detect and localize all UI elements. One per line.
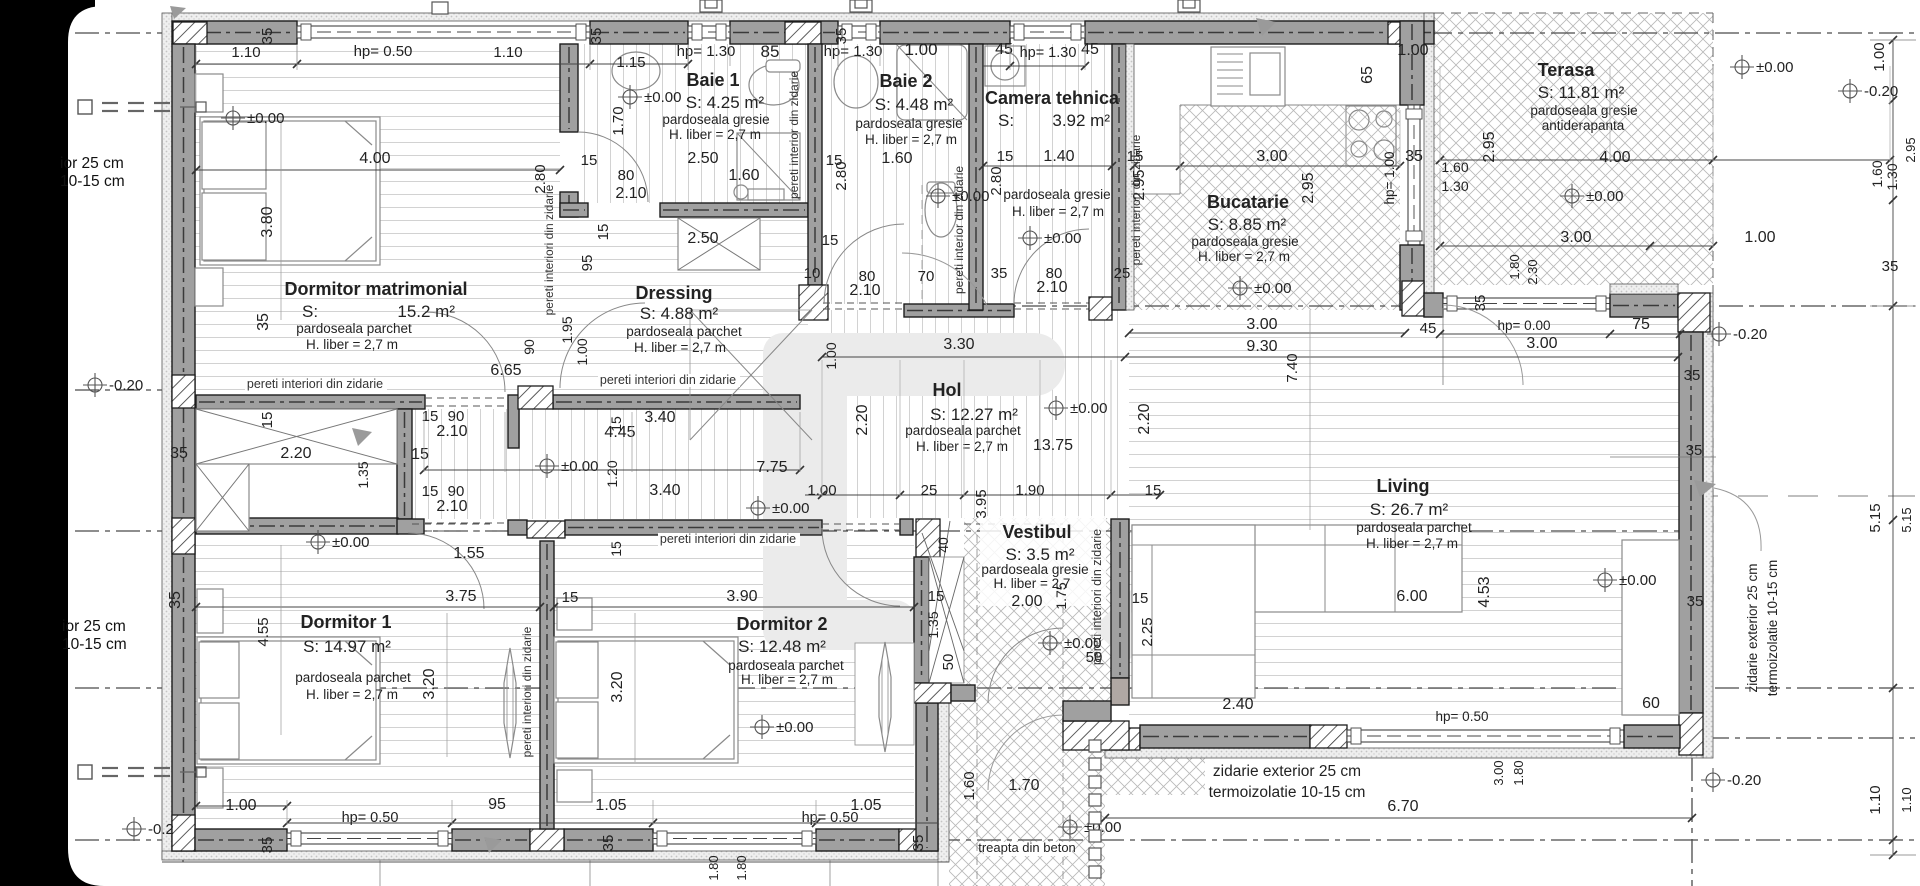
svg-text:35: 35 — [588, 28, 605, 45]
svg-text:1.00: 1.00 — [1744, 229, 1775, 246]
svg-text:pardoseala parchet: pardoseala parchet — [1356, 520, 1472, 535]
svg-text:15: 15 — [259, 412, 276, 429]
svg-text:pereti interiori din zidarie: pereti interiori din zidarie — [1090, 529, 1104, 665]
svg-text:15.2 m²: 15.2 m² — [397, 302, 455, 321]
svg-text:3.40: 3.40 — [649, 482, 680, 499]
svg-text:2.50: 2.50 — [687, 230, 718, 247]
svg-text:15: 15 — [826, 152, 843, 169]
svg-text:±0.00: ±0.00 — [1756, 59, 1793, 76]
svg-text:1.00: 1.00 — [823, 342, 839, 369]
svg-text:3.00: 3.00 — [1491, 760, 1506, 785]
svg-text:2.20: 2.20 — [280, 445, 311, 462]
svg-text:2.40: 2.40 — [1222, 696, 1253, 713]
svg-text:H. liber = 2,7 m: H. liber = 2,7 m — [916, 439, 1008, 454]
svg-text:2.95: 2.95 — [1300, 172, 1317, 203]
svg-text:±0.00: ±0.00 — [1254, 280, 1291, 297]
svg-text:Dressing: Dressing — [635, 283, 712, 303]
svg-text:Hol: Hol — [933, 380, 962, 400]
svg-text:-0.20: -0.20 — [1727, 772, 1761, 789]
svg-text:35: 35 — [170, 445, 188, 462]
svg-text:pardoseala gresie: pardoseala gresie — [855, 116, 962, 131]
svg-text:15: 15 — [581, 152, 598, 169]
svg-text:H. liber = 2,7 m: H. liber = 2,7 m — [669, 127, 761, 142]
svg-text:4.00: 4.00 — [359, 150, 390, 167]
svg-text:25: 25 — [1114, 265, 1131, 282]
svg-text:hp= 1.00: hp= 1.00 — [1382, 152, 1397, 205]
svg-text:pardoseala gresie: pardoseala gresie — [1191, 234, 1298, 249]
svg-text:2.95: 2.95 — [1481, 131, 1498, 162]
svg-text:1.60: 1.60 — [1441, 159, 1468, 175]
svg-text:35: 35 — [833, 28, 850, 45]
svg-text:1.60: 1.60 — [881, 150, 912, 167]
svg-text:H. liber = 2,7 m: H. liber = 2,7 m — [1012, 204, 1104, 219]
svg-text:3.75: 3.75 — [445, 588, 476, 605]
svg-text:2.20: 2.20 — [854, 404, 871, 435]
svg-text:hp= 0.00: hp= 0.00 — [1498, 318, 1551, 333]
svg-text:hp= 0.50: hp= 0.50 — [802, 810, 859, 826]
svg-text:85: 85 — [761, 42, 780, 61]
svg-text:zidarie exterior 25 cm: zidarie exterior 25 cm — [1745, 563, 1760, 692]
svg-text:H. liber = 2,7 m: H. liber = 2,7 m — [634, 340, 726, 355]
svg-text:15: 15 — [822, 232, 839, 249]
svg-text:-0.20: -0.20 — [109, 377, 143, 394]
svg-text:1.10: 1.10 — [493, 44, 522, 61]
svg-text:termoizolatie 10-15 cm: termoizolatie 10-15 cm — [1765, 560, 1780, 697]
svg-text:13.75: 13.75 — [1033, 437, 1073, 454]
svg-text:2.10: 2.10 — [615, 185, 646, 202]
svg-text:6.65: 6.65 — [490, 362, 521, 379]
svg-text:5.15: 5.15 — [1867, 503, 1884, 532]
svg-text:1.95: 1.95 — [559, 316, 575, 343]
svg-text:S: 12.27 m²: S: 12.27 m² — [930, 405, 1018, 424]
svg-text:pereti interior din zidarie: pereti interior din zidarie — [787, 71, 801, 199]
svg-text:90: 90 — [521, 339, 537, 355]
svg-text:pereti interiori din zidarie: pereti interiori din zidarie — [520, 626, 534, 757]
svg-text:hp= 1.30: hp= 1.30 — [824, 43, 883, 60]
svg-text:hp= 0.50: hp= 0.50 — [342, 810, 399, 826]
svg-text:treapta din beton: treapta din beton — [978, 840, 1076, 855]
svg-text:2.95: 2.95 — [1903, 137, 1918, 162]
svg-text:pereti interiori din zidarie: pereti interiori din zidarie — [1129, 134, 1143, 265]
svg-text:S: 4.25 m²: S: 4.25 m² — [686, 93, 765, 112]
svg-text:65: 65 — [1359, 66, 1376, 84]
svg-text:35: 35 — [1687, 593, 1704, 610]
svg-text:1.80: 1.80 — [734, 855, 749, 880]
svg-text:45: 45 — [1081, 41, 1099, 58]
svg-text:35: 35 — [255, 313, 272, 331]
svg-text:35: 35 — [259, 837, 276, 854]
svg-text:S: 11.81 m²: S: 11.81 m² — [1538, 83, 1625, 102]
svg-text:35: 35 — [1882, 258, 1899, 275]
svg-text:±0.00: ±0.00 — [1044, 230, 1081, 247]
svg-text:±0.00: ±0.00 — [772, 500, 809, 517]
svg-text:80: 80 — [618, 167, 635, 184]
svg-text:7.40: 7.40 — [1284, 353, 1301, 382]
svg-text:2.25: 2.25 — [1139, 617, 1156, 646]
svg-text:Dormitor matrimonial: Dormitor matrimonial — [284, 279, 467, 299]
svg-text:1.80: 1.80 — [1511, 760, 1526, 785]
svg-text:1.75: 1.75 — [1053, 582, 1069, 609]
svg-text:6.70: 6.70 — [1387, 798, 1418, 815]
svg-text:±0.00: ±0.00 — [644, 89, 681, 106]
svg-text:1.00: 1.00 — [225, 797, 256, 814]
svg-text:±0.00: ±0.00 — [776, 719, 813, 736]
svg-text:3.00: 3.00 — [1256, 148, 1287, 165]
svg-text:3.95: 3.95 — [973, 489, 990, 518]
svg-text:15: 15 — [928, 588, 945, 605]
svg-text:1.70: 1.70 — [1008, 777, 1039, 794]
svg-text:Dormitor 1: Dormitor 1 — [300, 612, 391, 632]
svg-text:pardoseala parchet: pardoseala parchet — [626, 324, 742, 339]
svg-text:ior 25 cm: ior 25 cm — [62, 618, 126, 635]
svg-text:1.60: 1.60 — [1869, 160, 1885, 187]
svg-text:9.30: 9.30 — [1246, 338, 1277, 355]
svg-text:S:: S: — [998, 111, 1014, 130]
svg-text:2.10: 2.10 — [436, 498, 467, 515]
svg-text:2.10: 2.10 — [1036, 279, 1067, 296]
svg-text:15: 15 — [411, 446, 429, 463]
svg-text:S: 12.48 m²: S: 12.48 m² — [738, 637, 826, 656]
svg-text:1.30: 1.30 — [1441, 178, 1468, 194]
svg-text:H. liber = 2,7 m: H. liber = 2,7 m — [741, 672, 833, 687]
svg-text:1.70: 1.70 — [610, 106, 627, 135]
svg-text:±0.00: ±0.00 — [561, 458, 598, 475]
svg-text:pardoseala gresie: pardoseala gresie — [1003, 187, 1110, 202]
svg-text:pardoseala parchet: pardoseala parchet — [296, 321, 412, 336]
svg-text:±0.00: ±0.00 — [1070, 400, 1107, 417]
svg-text:1.80: 1.80 — [1507, 254, 1522, 279]
svg-text:2.80: 2.80 — [988, 166, 1005, 195]
svg-text:75: 75 — [1632, 316, 1650, 333]
svg-text:15: 15 — [997, 148, 1014, 165]
svg-text:3.80: 3.80 — [259, 206, 276, 237]
svg-text:2.20: 2.20 — [1136, 403, 1153, 434]
svg-text:15: 15 — [562, 589, 579, 606]
svg-text:95: 95 — [579, 255, 596, 272]
svg-text:35: 35 — [1684, 367, 1701, 384]
svg-text:35: 35 — [1405, 148, 1423, 165]
svg-text:Camera tehnica: Camera tehnica — [985, 88, 1120, 108]
svg-text:Baie 2: Baie 2 — [879, 71, 932, 91]
svg-text:70: 70 — [918, 268, 935, 285]
svg-text:1.00: 1.00 — [904, 40, 937, 59]
svg-text:-0.2: -0.2 — [148, 821, 174, 838]
svg-text:4.55: 4.55 — [255, 617, 272, 646]
svg-text:±0.00: ±0.00 — [332, 534, 369, 551]
svg-text:1.05: 1.05 — [595, 797, 626, 814]
svg-text:pardoseala parchet: pardoseala parchet — [295, 670, 411, 685]
svg-text:1.00: 1.00 — [574, 338, 590, 365]
svg-text:3.40: 3.40 — [644, 409, 675, 426]
svg-text:1.35: 1.35 — [355, 461, 371, 488]
svg-text:Bucatarie: Bucatarie — [1207, 192, 1289, 212]
svg-text:35: 35 — [600, 835, 617, 852]
svg-text:2.00: 2.00 — [1011, 593, 1042, 610]
svg-text:15: 15 — [608, 541, 624, 557]
svg-text:10: 10 — [804, 265, 821, 282]
svg-text:25: 25 — [921, 482, 938, 499]
svg-text:S:: S: — [302, 302, 318, 321]
svg-text:50: 50 — [940, 654, 957, 671]
svg-text:pardoseala gresie: pardoseala gresie — [1530, 103, 1637, 118]
svg-text:2.30: 2.30 — [1525, 259, 1540, 284]
svg-text:H. liber = 2,7 m: H. liber = 2,7 m — [306, 687, 398, 702]
svg-text:3.00: 3.00 — [1526, 335, 1557, 352]
svg-text:hp= 1.30: hp= 1.30 — [1020, 45, 1077, 61]
svg-text:3.92 m²: 3.92 m² — [1052, 111, 1110, 130]
svg-text:termoizolatie 10-15 cm: termoizolatie 10-15 cm — [1209, 784, 1366, 801]
svg-text:3.00: 3.00 — [1246, 316, 1277, 333]
svg-text:4.00: 4.00 — [1599, 149, 1630, 166]
svg-text:6.00: 6.00 — [1396, 588, 1427, 605]
svg-text:35: 35 — [1686, 442, 1703, 459]
svg-text:pereti interiori din zidarie: pereti interiori din zidarie — [660, 532, 796, 546]
svg-text:hp= 1.30: hp= 1.30 — [677, 43, 736, 60]
svg-text:pereti interiori din zidarie: pereti interiori din zidarie — [247, 377, 383, 391]
svg-text:S: 14.97 m²: S: 14.97 m² — [303, 637, 391, 656]
svg-text:-0.20: -0.20 — [1864, 83, 1898, 100]
svg-text:antiderapanta: antiderapanta — [1542, 118, 1625, 133]
svg-text:1.00: 1.00 — [1397, 42, 1428, 59]
svg-text:10-15 cm: 10-15 cm — [62, 636, 127, 653]
svg-text:7.75: 7.75 — [756, 459, 787, 476]
svg-text:S: 8.85 m²: S: 8.85 m² — [1208, 215, 1287, 234]
svg-text:35: 35 — [259, 28, 276, 45]
svg-text:2.10: 2.10 — [436, 423, 467, 440]
svg-text:Dormitor 2: Dormitor 2 — [736, 614, 827, 634]
svg-text:35: 35 — [167, 591, 184, 609]
svg-text:1.30: 1.30 — [1884, 163, 1900, 190]
svg-text:2.10: 2.10 — [849, 282, 880, 299]
svg-text:pardoseala gresie: pardoseala gresie — [662, 112, 769, 127]
svg-text:ior 25 cm: ior 25 cm — [60, 155, 124, 172]
svg-text:35: 35 — [1472, 295, 1489, 312]
svg-text:3.90: 3.90 — [726, 588, 757, 605]
svg-text:3.00: 3.00 — [1560, 229, 1591, 246]
svg-text:1.55: 1.55 — [453, 545, 484, 562]
svg-text:1.10: 1.10 — [1899, 787, 1914, 812]
svg-text:pardoseala gresie: pardoseala gresie — [981, 562, 1088, 577]
svg-text:pardoseala parchet: pardoseala parchet — [728, 658, 844, 673]
svg-text:S: 4.88 m²: S: 4.88 m² — [640, 304, 719, 323]
svg-text:40: 40 — [935, 537, 951, 553]
svg-text:35: 35 — [991, 265, 1008, 282]
svg-text:1.60: 1.60 — [728, 167, 759, 184]
svg-text:pereti interiori din zidarie: pereti interiori din zidarie — [542, 184, 556, 315]
svg-text:H. liber = 2,7 m: H. liber = 2,7 m — [1366, 536, 1458, 551]
svg-text:4.53: 4.53 — [1476, 576, 1493, 607]
svg-text:hp= 0.50: hp= 0.50 — [1436, 709, 1489, 724]
svg-text:35: 35 — [910, 835, 927, 852]
svg-text:15: 15 — [1132, 590, 1149, 607]
svg-text:Living: Living — [1377, 476, 1430, 496]
svg-text:5.15: 5.15 — [1899, 507, 1914, 532]
svg-text:Vestibul: Vestibul — [1002, 522, 1071, 542]
svg-text:±0.00: ±0.00 — [247, 110, 284, 127]
svg-text:60: 60 — [1642, 695, 1660, 712]
svg-text:1.35: 1.35 — [925, 611, 941, 638]
svg-text:S: 26.7 m²: S: 26.7 m² — [1370, 500, 1449, 519]
svg-text:15: 15 — [1145, 482, 1162, 499]
svg-text:3.30: 3.30 — [943, 336, 974, 353]
svg-text:pereti interior din zidarie: pereti interior din zidarie — [952, 166, 966, 294]
svg-text:15: 15 — [595, 224, 612, 241]
svg-text:1.00: 1.00 — [1871, 42, 1888, 71]
svg-text:1.20: 1.20 — [604, 460, 620, 487]
svg-text:45: 45 — [1420, 320, 1437, 337]
svg-text:1.15: 1.15 — [616, 54, 645, 71]
svg-text:1.80: 1.80 — [706, 855, 721, 880]
svg-text:2.50: 2.50 — [687, 150, 718, 167]
svg-text:4.45: 4.45 — [604, 424, 635, 441]
svg-text:Baie 1: Baie 1 — [686, 70, 739, 90]
svg-text:1.10: 1.10 — [1867, 785, 1884, 814]
svg-text:H. liber = 2,7 m: H. liber = 2,7 m — [865, 132, 957, 147]
svg-text:±0.00: ±0.00 — [1586, 188, 1623, 205]
svg-text:pereti interiori din zidarie: pereti interiori din zidarie — [600, 373, 736, 387]
svg-text:S: 4.48 m²: S: 4.48 m² — [875, 95, 954, 114]
svg-text:zidarie exterior 25 cm: zidarie exterior 25 cm — [1213, 763, 1361, 780]
svg-text:10-15 cm: 10-15 cm — [60, 173, 125, 190]
svg-text:H. liber = 2,7 m: H. liber = 2,7 m — [1198, 249, 1290, 264]
svg-text:1.60: 1.60 — [961, 771, 978, 800]
svg-text:3.20: 3.20 — [421, 668, 438, 699]
svg-text:1.40: 1.40 — [1043, 148, 1074, 165]
svg-text:pardoseala parchet: pardoseala parchet — [905, 423, 1021, 438]
svg-text:95: 95 — [488, 796, 506, 813]
svg-text:3.20: 3.20 — [609, 671, 626, 702]
svg-text:Terasa: Terasa — [1538, 60, 1596, 80]
svg-text:hp= 0.50: hp= 0.50 — [354, 43, 413, 60]
svg-text:H. liber = 2,7 m: H. liber = 2,7 m — [306, 337, 398, 352]
svg-text:-0.20: -0.20 — [1733, 326, 1767, 343]
svg-text:1.10: 1.10 — [231, 44, 260, 61]
svg-text:±0.00: ±0.00 — [1619, 572, 1656, 589]
